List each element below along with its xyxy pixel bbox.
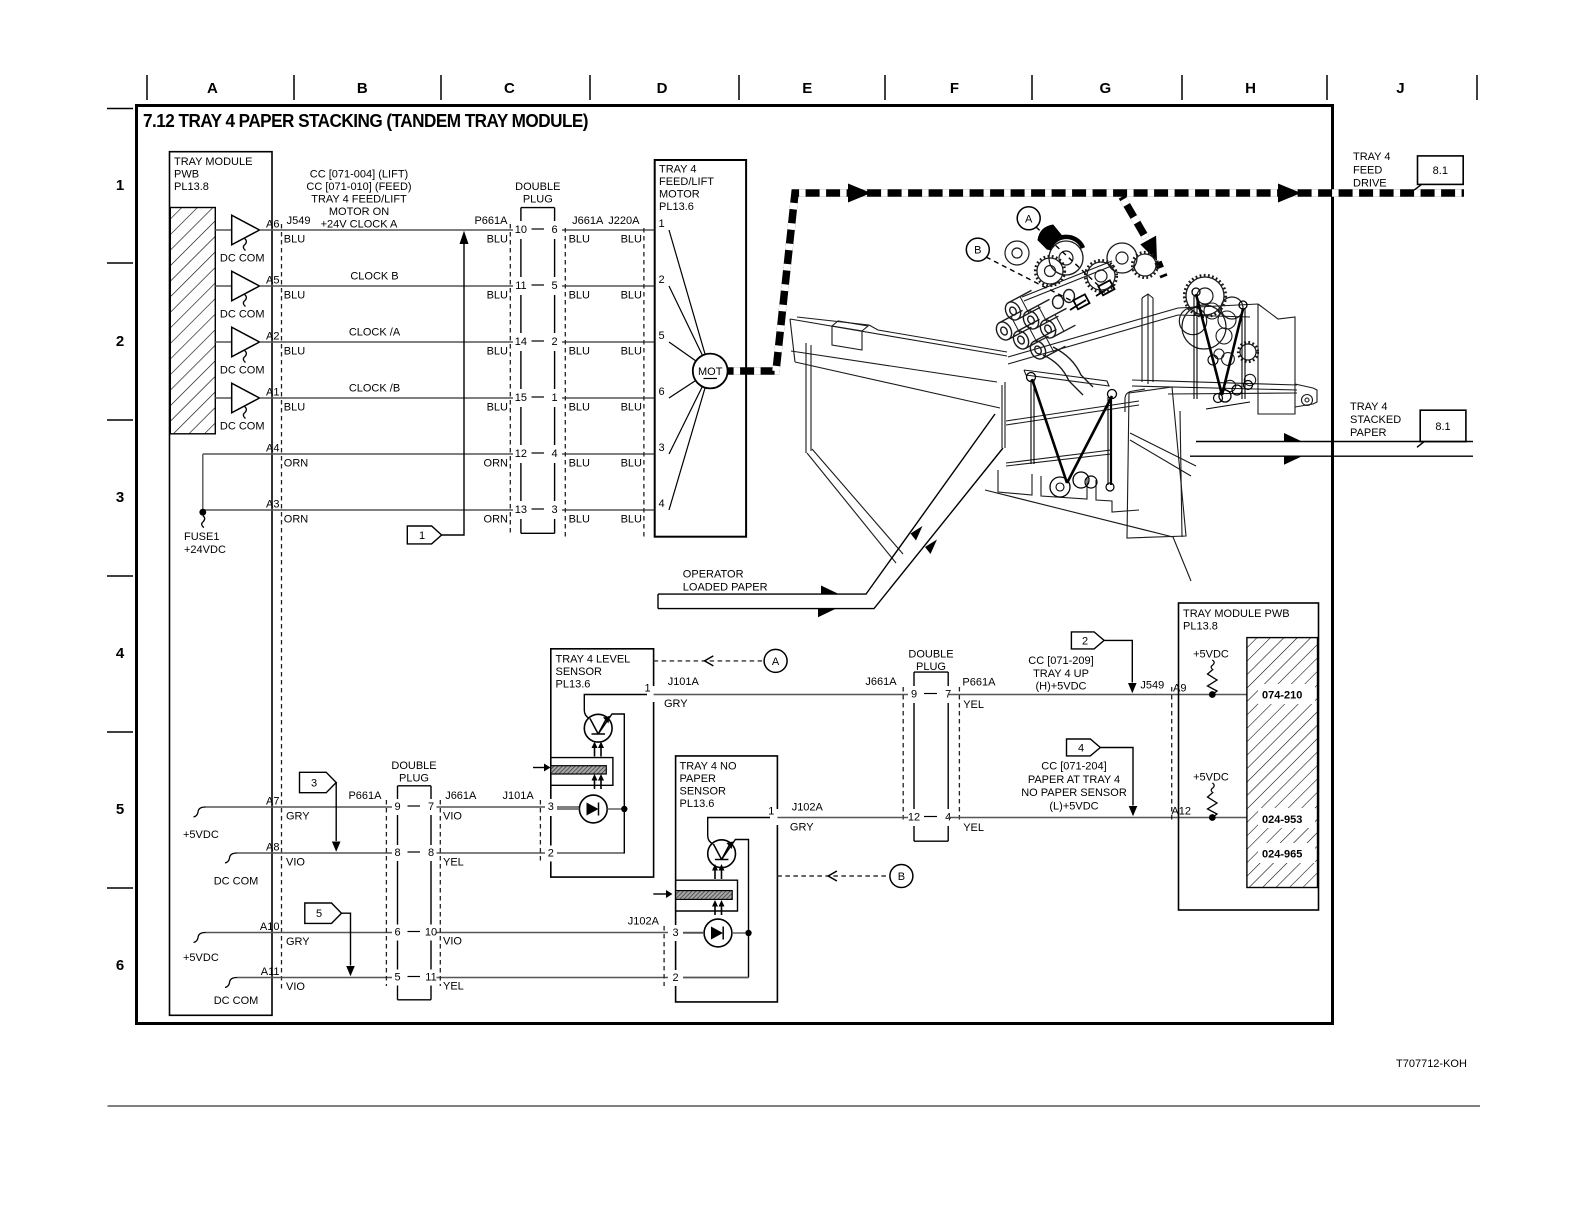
wire row A5 / pin 2 (BLU) bbox=[260, 271, 655, 302]
flow arrow on band (right) bbox=[1278, 184, 1301, 203]
svg-text:PLUG: PLUG bbox=[523, 194, 553, 206]
svg-text:FUSE1: FUSE1 bbox=[184, 531, 219, 543]
sensor1 flag entry arrow bbox=[533, 764, 551, 772]
svg-text:10: 10 bbox=[515, 224, 527, 236]
svg-text:J661A: J661A bbox=[865, 676, 897, 688]
svg-text:P661A: P661A bbox=[962, 677, 996, 689]
svg-text:+5VDC: +5VDC bbox=[1193, 649, 1229, 661]
tray bottom steps bbox=[998, 470, 1032, 495]
main drawing frame bbox=[137, 106, 1333, 1024]
svg-text:14: 14 bbox=[515, 336, 527, 348]
svg-text:GRY: GRY bbox=[664, 698, 688, 710]
double plug (top) pin numbers bbox=[515, 224, 558, 516]
middle panel bbox=[1141, 298, 1143, 382]
rear lift belt bbox=[1192, 288, 1253, 409]
pointer flag 5 bbox=[305, 903, 355, 976]
svg-text:D: D bbox=[657, 80, 668, 97]
svg-text:4: 4 bbox=[1078, 743, 1084, 755]
wire row A8 (VIO) bbox=[237, 842, 624, 869]
ground DC COM (A8) bbox=[214, 853, 259, 888]
svg-text:A: A bbox=[772, 656, 780, 668]
sensor2 junction node bbox=[745, 930, 751, 936]
svg-text:5: 5 bbox=[552, 280, 558, 292]
svg-text:BLU: BLU bbox=[621, 514, 642, 526]
svg-text:A11: A11 bbox=[261, 966, 280, 978]
svg-text:TRAY 4 NO: TRAY 4 NO bbox=[680, 761, 737, 773]
svg-text:OPERATOR: OPERATOR bbox=[683, 569, 744, 581]
connector J102A dashed line bbox=[663, 926, 665, 986]
svg-text:J102A: J102A bbox=[628, 916, 660, 928]
sensor1 internal wires bbox=[557, 808, 621, 810]
connector P661A dashed line (top) bbox=[509, 224, 511, 536]
center vertical belt bbox=[1106, 397, 1114, 491]
svg-text:ORN: ORN bbox=[284, 514, 309, 526]
svg-text:DRIVE: DRIVE bbox=[1353, 178, 1387, 190]
svg-text:PLUG: PLUG bbox=[399, 773, 429, 785]
sensor1 phototransistor Q1 bbox=[584, 695, 647, 854]
PWB hatched area bbox=[170, 208, 215, 434]
svg-text:TRAY MODULE PWB: TRAY MODULE PWB bbox=[1183, 608, 1290, 620]
svg-text:C: C bbox=[504, 80, 515, 97]
svg-text:LOADED PAPER: LOADED PAPER bbox=[683, 582, 768, 594]
svg-text:BLU: BLU bbox=[487, 346, 508, 358]
roller support arm bbox=[1043, 355, 1083, 395]
svg-text:TRAY 4: TRAY 4 bbox=[659, 164, 697, 176]
svg-text:VIO: VIO bbox=[443, 811, 462, 823]
sensor1 light beam arrows bbox=[592, 742, 605, 790]
CC [071-204] note bbox=[1021, 761, 1127, 813]
svg-text:J102A: J102A bbox=[792, 802, 824, 814]
svg-text:BLU: BLU bbox=[621, 346, 642, 358]
wire row A10 (GRY) bbox=[206, 921, 705, 948]
motor fan-in lines bbox=[669, 230, 705, 510]
svg-text:BLU: BLU bbox=[569, 290, 590, 302]
svg-text:DC COM: DC COM bbox=[214, 995, 259, 1007]
connector J101A dashed line bbox=[539, 800, 541, 862]
svg-text:3: 3 bbox=[552, 504, 558, 516]
svg-text:VIO: VIO bbox=[286, 981, 305, 993]
buffer driver A6 bbox=[215, 215, 264, 264]
tray 4 level sensor box bbox=[551, 649, 654, 877]
motor MOT symbol bbox=[693, 354, 728, 389]
svg-text:BLU: BLU bbox=[621, 402, 642, 414]
svg-text:CLOCK B: CLOCK B bbox=[350, 271, 398, 283]
svg-text:PL13.6: PL13.6 bbox=[659, 201, 694, 213]
wire sensor1 pin1 to J661A (GRY) bbox=[654, 676, 908, 710]
right wall panel bbox=[1258, 304, 1295, 414]
svg-text:3: 3 bbox=[673, 927, 679, 939]
sensor1 photodiode D1 bbox=[579, 795, 607, 823]
svg-text:DC COM: DC COM bbox=[220, 421, 265, 433]
svg-text:A6: A6 bbox=[266, 219, 279, 231]
svg-text:A5: A5 bbox=[266, 275, 279, 287]
svg-text:DC COM: DC COM bbox=[220, 365, 265, 377]
svg-text:STACKED: STACKED bbox=[1350, 414, 1401, 426]
svg-text:PAPER AT TRAY 4: PAPER AT TRAY 4 bbox=[1028, 774, 1120, 786]
svg-text:TRAY 4 FEED/LIFT: TRAY 4 FEED/LIFT bbox=[311, 194, 407, 206]
svg-text:BLU: BLU bbox=[569, 514, 590, 526]
svg-text:A: A bbox=[1025, 213, 1033, 225]
tray module mechanical drawing bbox=[790, 294, 1317, 581]
svg-text:DOUBLE: DOUBLE bbox=[908, 649, 953, 661]
svg-text:CLOCK /B: CLOCK /B bbox=[349, 383, 400, 395]
svg-text:P661A: P661A bbox=[348, 790, 382, 802]
svg-text:5: 5 bbox=[394, 972, 400, 984]
svg-text:A: A bbox=[207, 80, 218, 97]
svg-text:TRAY MODULE: TRAY MODULE bbox=[174, 156, 252, 168]
svg-text:PLUG: PLUG bbox=[916, 661, 946, 673]
svg-text:11: 11 bbox=[515, 280, 526, 292]
buffer driver A5 bbox=[215, 271, 264, 320]
svg-text:1: 1 bbox=[644, 683, 650, 695]
stack side guide panel bbox=[1127, 387, 1186, 538]
double plug (right) bbox=[914, 672, 948, 841]
svg-text:+5VDC: +5VDC bbox=[183, 952, 219, 964]
svg-text:SENSOR: SENSOR bbox=[680, 786, 727, 798]
svg-text:6: 6 bbox=[552, 224, 558, 236]
svg-text:A12: A12 bbox=[1171, 806, 1191, 818]
tray module PWB (left) box bbox=[170, 152, 273, 1016]
svg-text:DC COM: DC COM bbox=[220, 309, 265, 321]
svg-text:J661A: J661A bbox=[445, 790, 477, 802]
svg-text:BLU: BLU bbox=[569, 346, 590, 358]
connector J661A dashed line (top) bbox=[564, 228, 566, 540]
lift shaft bbox=[1022, 261, 1114, 301]
ground DC COM (A11) bbox=[214, 978, 259, 1008]
svg-text:024-953: 024-953 bbox=[1262, 814, 1302, 826]
svg-text:DOUBLE: DOUBLE bbox=[391, 760, 436, 772]
svg-text:J220A: J220A bbox=[608, 215, 640, 227]
TRAY 4 FEED DRIVE label bbox=[1353, 151, 1391, 190]
svg-text:B: B bbox=[898, 871, 905, 883]
grid column ticks bbox=[147, 75, 1477, 100]
svg-text:BLU: BLU bbox=[284, 290, 305, 302]
svg-text:F: F bbox=[950, 80, 959, 97]
svg-text:B: B bbox=[974, 245, 981, 257]
svg-text:12: 12 bbox=[908, 812, 920, 824]
svg-text:CC [071-010] (FEED): CC [071-010] (FEED) bbox=[306, 181, 411, 193]
connector J220A dashed line bbox=[643, 228, 645, 540]
svg-text:5: 5 bbox=[116, 801, 124, 818]
svg-text:+24VDC: +24VDC bbox=[184, 544, 226, 556]
svg-text:P661A: P661A bbox=[474, 215, 508, 227]
pointer flag 4 bbox=[1067, 739, 1138, 816]
svg-text:9: 9 bbox=[394, 801, 400, 813]
tray side rails bbox=[1006, 401, 1139, 421]
CC [071-209] note bbox=[1028, 655, 1093, 693]
svg-text:2: 2 bbox=[116, 333, 124, 350]
svg-text:GRY: GRY bbox=[286, 936, 310, 948]
svg-text:B: B bbox=[357, 80, 368, 97]
off-page reference 8.1 (stacked paper) bbox=[1417, 410, 1466, 447]
wire row A12 (YEL) bbox=[948, 806, 1247, 835]
svg-text:3: 3 bbox=[116, 489, 124, 506]
svg-text:TRAY 4: TRAY 4 bbox=[1350, 401, 1388, 413]
svg-text:BLU: BLU bbox=[569, 234, 590, 246]
buffer driver A1 bbox=[215, 383, 264, 432]
wire row A2 / pin 5 (BLU) bbox=[260, 327, 655, 358]
sensor2 internal wires bbox=[683, 933, 749, 978]
wire row A6 / pin 1 (BLU) bbox=[260, 219, 655, 246]
svg-text:FEED: FEED bbox=[1353, 164, 1382, 176]
svg-text:BLU: BLU bbox=[569, 402, 590, 414]
callout B reference (sensor2) bbox=[777, 865, 913, 888]
sensor1 flag slot bbox=[551, 758, 613, 786]
checkered branch into gears bbox=[1122, 197, 1146, 238]
svg-text:BLU: BLU bbox=[487, 234, 508, 246]
svg-text:1: 1 bbox=[659, 218, 665, 230]
svg-text:11: 11 bbox=[425, 972, 436, 984]
fuse FUSE1 +24VDC bbox=[184, 454, 226, 556]
connector P661A dashed line (sensor section) bbox=[385, 800, 387, 986]
double plug (right) pin numbers bbox=[908, 689, 951, 824]
svg-text:PL13.8: PL13.8 bbox=[174, 181, 209, 193]
CC note text block bbox=[306, 169, 411, 231]
power tap +5VDC (A10) bbox=[183, 933, 219, 965]
lower right tub edges bbox=[1130, 433, 1196, 466]
svg-text:3: 3 bbox=[311, 778, 317, 790]
svg-text:(L)+5VDC: (L)+5VDC bbox=[1049, 801, 1098, 813]
svg-text:CC [071-004] (LIFT): CC [071-004] (LIFT) bbox=[310, 169, 408, 181]
svg-text:024-965: 024-965 bbox=[1262, 849, 1302, 861]
svg-text:PL13.6: PL13.6 bbox=[556, 679, 591, 691]
svg-text:DC COM: DC COM bbox=[220, 253, 265, 265]
svg-text:ORN: ORN bbox=[284, 458, 309, 470]
svg-text:12: 12 bbox=[515, 448, 527, 460]
svg-text:(H)+5VDC: (H)+5VDC bbox=[1035, 681, 1086, 693]
svg-text:1: 1 bbox=[552, 392, 558, 404]
connector J549 dashed line (right) bbox=[1171, 687, 1173, 822]
svg-text:BLU: BLU bbox=[487, 402, 508, 414]
feed roller cluster bbox=[993, 290, 1093, 396]
svg-text:BLU: BLU bbox=[569, 458, 590, 470]
sensor1 junction node bbox=[621, 806, 627, 812]
svg-text:BLU: BLU bbox=[621, 290, 642, 302]
svg-text:BLU: BLU bbox=[284, 346, 305, 358]
svg-text:+5VDC: +5VDC bbox=[1193, 772, 1229, 784]
connector P661A dashed line (right) bbox=[958, 687, 960, 822]
svg-text:BLU: BLU bbox=[284, 402, 305, 414]
svg-text:MOTOR ON: MOTOR ON bbox=[329, 206, 389, 218]
svg-text:8.1: 8.1 bbox=[1433, 165, 1448, 177]
svg-text:A1: A1 bbox=[266, 387, 279, 399]
wire row A4 / pin 3 (ORN) bbox=[203, 443, 655, 470]
svg-text:J549: J549 bbox=[287, 215, 311, 227]
svg-text:1: 1 bbox=[419, 530, 425, 542]
svg-text:2: 2 bbox=[673, 972, 679, 984]
grid column letters bbox=[207, 80, 1405, 97]
svg-text:YEL: YEL bbox=[963, 822, 984, 834]
wire row A7 (GRY) bbox=[206, 796, 580, 823]
tray 4 feed/lift motor box bbox=[655, 160, 746, 537]
svg-text:GRY: GRY bbox=[790, 822, 814, 834]
svg-text:9: 9 bbox=[911, 689, 917, 701]
svg-text:15: 15 bbox=[515, 392, 527, 404]
svg-text:BLU: BLU bbox=[621, 234, 642, 246]
wire row A9 (YEL) bbox=[948, 680, 1247, 712]
svg-text:YEL: YEL bbox=[443, 981, 464, 993]
beam left panel edge bbox=[805, 343, 807, 453]
svg-text:J549: J549 bbox=[1140, 680, 1164, 692]
svg-text:1: 1 bbox=[768, 806, 774, 818]
lift beam bbox=[790, 319, 1007, 356]
drive belt dark arc bbox=[1038, 225, 1083, 250]
left lift belt bbox=[1027, 373, 1117, 498]
svg-text:A9: A9 bbox=[1173, 683, 1186, 695]
svg-text:PAPER: PAPER bbox=[1350, 427, 1387, 439]
svg-text:10: 10 bbox=[425, 927, 437, 939]
tray module PWB (right) box bbox=[1179, 603, 1319, 910]
chute flow arrows bbox=[821, 586, 839, 595]
double plug (sensor section) pin numbers bbox=[394, 801, 437, 984]
checkered flow band: MOT to TRAY 4 FEED DRIVE bbox=[728, 193, 1464, 371]
svg-text:6: 6 bbox=[659, 386, 665, 398]
wire row A1 / pin 6 (BLU) bbox=[260, 383, 655, 414]
svg-text:TRAY 4 LEVEL: TRAY 4 LEVEL bbox=[556, 654, 631, 666]
grid row ticks bbox=[107, 109, 133, 889]
flow arrow on band (left) bbox=[848, 184, 871, 203]
operator loaded paper chute bbox=[658, 414, 1003, 609]
svg-text:BLU: BLU bbox=[284, 234, 305, 246]
wire row A3 / pin 4 (ORN) bbox=[203, 499, 655, 526]
svg-text:YEL: YEL bbox=[443, 857, 464, 869]
svg-text:7.12 TRAY 4 PAPER STACKING (TA: 7.12 TRAY 4 PAPER STACKING (TANDEM TRAY … bbox=[143, 111, 589, 131]
right PWB hatched area bbox=[1247, 638, 1318, 888]
svg-text:YEL: YEL bbox=[963, 699, 984, 711]
svg-text:1: 1 bbox=[116, 177, 124, 194]
connector J549 dashed line bbox=[281, 224, 283, 990]
tray front bottom edge bbox=[985, 490, 1173, 537]
svg-text:CLOCK /A: CLOCK /A bbox=[349, 327, 401, 339]
svg-text:J101A: J101A bbox=[668, 676, 700, 688]
lift wire drum bbox=[1050, 477, 1070, 497]
svg-text:H: H bbox=[1245, 80, 1256, 97]
buffer driver A2 bbox=[215, 327, 264, 376]
svg-text:TRAY 4: TRAY 4 bbox=[1353, 151, 1391, 163]
pull-up resistor R1 +5VDC bbox=[1193, 649, 1229, 698]
svg-text:MOT: MOT bbox=[698, 366, 723, 378]
pointer flag 3 bbox=[300, 772, 341, 852]
sensor2 phototransistor Q2 bbox=[708, 818, 770, 978]
svg-text:8.1: 8.1 bbox=[1435, 421, 1450, 433]
callout A bbox=[1017, 207, 1100, 287]
svg-text:DOUBLE: DOUBLE bbox=[515, 181, 560, 193]
svg-text:8: 8 bbox=[394, 847, 400, 859]
grid row numbers bbox=[116, 177, 125, 974]
svg-text:PAPER: PAPER bbox=[680, 773, 717, 785]
callout A reference (sensor1) bbox=[654, 649, 788, 672]
sensor clips (parts A and B) bbox=[1070, 280, 1115, 310]
svg-text:MOTOR: MOTOR bbox=[659, 189, 700, 201]
footer rule bbox=[108, 1105, 1481, 1107]
sensor2 photodiode D2 bbox=[704, 919, 732, 947]
svg-text:GRY: GRY bbox=[286, 811, 310, 823]
wire sensor2 pin1 to J661A (GRY) bbox=[777, 802, 908, 834]
net 024-953 bbox=[1258, 808, 1315, 828]
svg-text:4: 4 bbox=[116, 645, 125, 662]
svg-text:2: 2 bbox=[659, 274, 665, 286]
callout B bbox=[966, 238, 1072, 301]
svg-text:13: 13 bbox=[515, 504, 527, 516]
beam top box bbox=[832, 326, 862, 350]
stacked paper flow lines bbox=[1190, 442, 1473, 457]
svg-text:2: 2 bbox=[548, 848, 554, 860]
svg-text:A7: A7 bbox=[266, 796, 279, 808]
connector J661A dashed line (right) bbox=[902, 687, 904, 822]
svg-text:A8: A8 bbox=[266, 842, 279, 854]
svg-text:VIO: VIO bbox=[443, 936, 462, 948]
svg-text:5: 5 bbox=[316, 908, 322, 920]
svg-text:J101A: J101A bbox=[503, 790, 535, 802]
off-page reference 8.1 (feed drive) bbox=[1414, 156, 1463, 190]
svg-text:3: 3 bbox=[659, 442, 665, 454]
svg-text:BLU: BLU bbox=[487, 290, 508, 302]
gear and pulley cluster bbox=[1005, 241, 1258, 392]
front post bbox=[1001, 385, 1003, 448]
platform sliver bar bbox=[1024, 370, 1109, 386]
svg-text:CC [071-204]: CC [071-204] bbox=[1041, 761, 1106, 773]
svg-text:2: 2 bbox=[1082, 635, 1088, 647]
svg-text:BLU: BLU bbox=[621, 458, 642, 470]
right rail and wheel bbox=[1295, 384, 1313, 388]
platform back edges bbox=[1008, 308, 1178, 357]
svg-text:A3: A3 bbox=[266, 499, 279, 511]
svg-text:+5VDC: +5VDC bbox=[183, 829, 219, 841]
svg-text:PWB: PWB bbox=[174, 169, 199, 181]
connector J661A dashed line (sensor section) bbox=[439, 800, 441, 986]
svg-text:4: 4 bbox=[552, 448, 558, 460]
svg-text:CC [071-209]: CC [071-209] bbox=[1028, 655, 1093, 667]
net 074-210 bbox=[1258, 684, 1315, 704]
svg-text:PL13.6: PL13.6 bbox=[680, 798, 715, 810]
svg-text:PL13.8: PL13.8 bbox=[1183, 621, 1218, 633]
sensor2 flag slot bbox=[676, 880, 738, 911]
svg-text:+24V CLOCK A: +24V CLOCK A bbox=[321, 219, 398, 231]
svg-text:8: 8 bbox=[428, 847, 434, 859]
svg-text:J661A: J661A bbox=[572, 215, 604, 227]
svg-text:A10: A10 bbox=[260, 921, 280, 933]
svg-text:E: E bbox=[802, 80, 812, 97]
svg-text:4: 4 bbox=[659, 498, 665, 510]
svg-text:6: 6 bbox=[394, 927, 400, 939]
net 024-965 bbox=[1258, 843, 1315, 863]
svg-text:074-210: 074-210 bbox=[1262, 690, 1302, 702]
double plug (sensor section) bbox=[398, 786, 432, 1000]
svg-text:FEED/LIFT: FEED/LIFT bbox=[659, 176, 714, 188]
wire row A11 (VIO) bbox=[237, 966, 749, 993]
sensor2 flag entry arrow bbox=[653, 890, 672, 898]
svg-text:5: 5 bbox=[659, 330, 665, 342]
svg-text:NO PAPER SENSOR: NO PAPER SENSOR bbox=[1021, 787, 1127, 799]
TRAY 4 STACKED PAPER label bbox=[1350, 401, 1401, 439]
svg-text:SENSOR: SENSOR bbox=[556, 666, 603, 678]
svg-text:ORN: ORN bbox=[484, 514, 509, 526]
double plug (top) bbox=[521, 208, 555, 534]
svg-text:ORN: ORN bbox=[484, 458, 509, 470]
svg-text:G: G bbox=[1099, 80, 1111, 97]
svg-text:A2: A2 bbox=[266, 331, 279, 343]
pull-up resistor R2 +5VDC bbox=[1193, 772, 1229, 821]
tray 4 no paper sensor box bbox=[676, 756, 778, 1002]
svg-text:T707712-KOH: T707712-KOH bbox=[1396, 1058, 1467, 1070]
svg-text:A4: A4 bbox=[266, 443, 279, 455]
svg-text:3: 3 bbox=[548, 801, 554, 813]
svg-text:6: 6 bbox=[116, 957, 124, 974]
svg-text:DC COM: DC COM bbox=[214, 876, 259, 888]
svg-text:TRAY 4 UP: TRAY 4 UP bbox=[1033, 668, 1089, 680]
power tap +5VDC (A7) bbox=[183, 807, 219, 841]
pointer flag 2 bbox=[1071, 632, 1136, 693]
